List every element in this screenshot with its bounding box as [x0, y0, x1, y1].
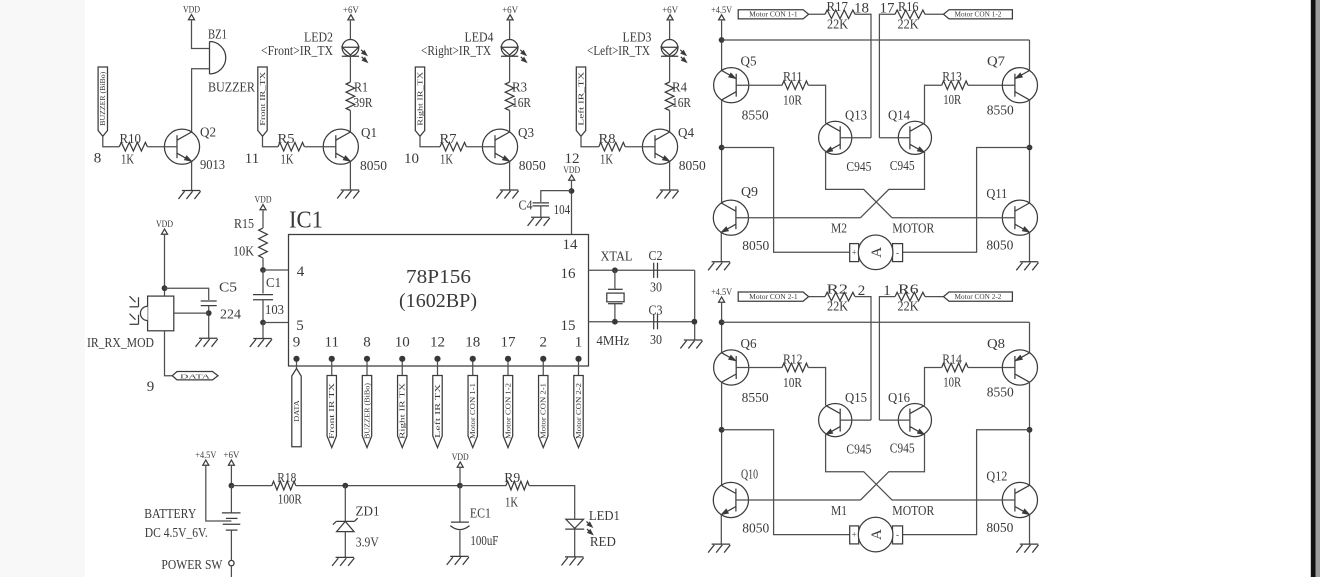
svg-text:3.9V: 3.9V	[356, 535, 379, 550]
wire (emitter cross left)	[826, 435, 892, 500]
wire	[208, 306, 210, 339]
resistor R12 10R	[782, 363, 808, 372]
resistor R1 39R	[346, 82, 355, 110]
svg-text:Motor CON 1-2: Motor CON 1-2	[505, 382, 512, 439]
svg-text:Q5: Q5	[741, 54, 757, 69]
net flag Motor CON 1-1	[738, 10, 808, 19]
wire	[809, 13, 825, 15]
transistor Q16 C945	[898, 404, 931, 437]
node	[612, 267, 618, 273]
wire	[529, 486, 575, 519]
svg-text:R7: R7	[440, 131, 457, 146]
page edge gray margin	[1316, 0, 1320, 577]
wire	[164, 235, 166, 296]
svg-text:R13: R13	[942, 69, 962, 84]
wire	[581, 136, 599, 146]
svg-text:Q16: Q16	[888, 390, 910, 405]
svg-text:IR_RX_MOD: IR_RX_MOD	[87, 335, 154, 350]
ground	[712, 261, 730, 263]
svg-text:Q1: Q1	[361, 125, 377, 140]
wire	[1029, 515, 1031, 544]
resistor R10 1K	[119, 142, 147, 151]
wire (top rail)	[722, 39, 1030, 41]
svg-text:M2: M2	[831, 221, 847, 236]
resistor R4 16R	[665, 82, 674, 110]
wire	[1029, 40, 1031, 71]
pin 8 lead	[366, 359, 368, 376]
svg-text:12: 12	[565, 151, 580, 167]
IC U1 IC1 78P156	[289, 235, 589, 367]
wire	[669, 111, 671, 133]
switch POWER SW	[229, 560, 234, 565]
resistor R6 22K	[895, 292, 925, 301]
ground	[1020, 261, 1038, 263]
svg-text:22K: 22K	[898, 299, 919, 314]
wire	[855, 297, 871, 421]
node	[1027, 427, 1033, 433]
svg-text:ZD1: ZD1	[356, 504, 380, 519]
transistor Q2	[164, 129, 199, 164]
svg-text:16: 16	[561, 266, 577, 282]
svg-text:C2: C2	[649, 248, 663, 263]
wire	[1029, 322, 1031, 353]
wire	[509, 161, 511, 190]
wire	[459, 468, 461, 486]
wire	[349, 56, 351, 82]
pin 1 lead	[578, 359, 580, 376]
svg-text:8550: 8550	[742, 108, 769, 123]
wire	[625, 146, 655, 148]
net flag Motor CON 1-2	[944, 10, 1013, 19]
svg-text:18: 18	[465, 335, 480, 351]
wire	[262, 211, 264, 229]
wire	[192, 21, 210, 49]
svg-text:POWER SW: POWER SW	[161, 557, 222, 572]
svg-text:MOTOR: MOTOR	[892, 221, 934, 236]
wire	[925, 296, 944, 298]
transistor Q7 8550	[1002, 68, 1037, 103]
svg-text:Front IR_TX: Front IR_TX	[260, 72, 267, 126]
ground	[684, 339, 702, 341]
wire	[879, 297, 895, 421]
wire (+4.5V rail)	[721, 303, 723, 353]
wire	[165, 331, 173, 376]
svg-text:30: 30	[650, 280, 662, 295]
ground	[253, 338, 271, 340]
svg-text:BUZZER (BiBo): BUZZER (BiBo)	[364, 383, 371, 439]
wire (Q11 base)	[892, 217, 1015, 219]
wire (+4.5V rail)	[721, 21, 723, 71]
wire	[263, 322, 289, 324]
wire	[262, 270, 264, 294]
wire	[736, 84, 782, 86]
svg-text:Q3: Q3	[518, 125, 534, 140]
LED LED3 <Left>IR_TX	[661, 40, 678, 57]
ground	[1020, 543, 1038, 545]
svg-text:8550: 8550	[987, 102, 1014, 117]
svg-text:1K: 1K	[281, 151, 294, 166]
ground	[336, 556, 354, 558]
svg-text:R11: R11	[783, 69, 803, 84]
wire	[879, 419, 910, 421]
net flag Front IR TX	[327, 376, 336, 448]
node	[719, 145, 725, 151]
node (pin4)	[260, 267, 266, 273]
wire	[509, 56, 511, 82]
transistor Q13 C945	[819, 121, 852, 154]
net flag Motor CON 2-1	[738, 292, 808, 301]
resistor R9 1K	[506, 481, 529, 490]
svg-text:Q9: Q9	[741, 184, 758, 199]
wire	[509, 111, 511, 133]
resistor R18 100R	[272, 481, 296, 490]
wire	[669, 56, 671, 82]
svg-text:8: 8	[94, 151, 102, 167]
svg-text:8050: 8050	[742, 238, 769, 253]
net flag Motor CON 2-2	[944, 292, 1013, 301]
svg-text:IC1: IC1	[289, 208, 323, 234]
pin 2 lead	[542, 359, 544, 376]
zener diode ZD1 3.9V	[344, 486, 346, 522]
net flag BUZZER (BiBo)	[98, 67, 107, 136]
svg-text:Q2: Q2	[200, 125, 216, 140]
svg-text:DATA: DATA	[294, 400, 301, 422]
svg-text:1K: 1K	[505, 495, 518, 510]
svg-text:8050: 8050	[360, 158, 387, 173]
resistor R17 22K	[825, 10, 855, 19]
svg-text:R15: R15	[234, 216, 254, 231]
svg-text:Left IR TX: Left IR TX	[435, 384, 442, 438]
svg-text:103: 103	[265, 302, 284, 317]
wire (Q9 base)	[736, 217, 861, 219]
ground	[531, 216, 549, 218]
transistor Q10 8050	[713, 482, 748, 517]
svg-text:78P156: 78P156	[406, 267, 471, 288]
wire	[147, 146, 177, 148]
ground	[565, 556, 583, 558]
transistor Q12 8050	[1002, 482, 1037, 517]
wire	[669, 21, 671, 40]
wire	[694, 270, 696, 340]
svg-text:1K: 1K	[600, 151, 613, 166]
svg-text:10R: 10R	[943, 374, 961, 389]
svg-text:+: +	[852, 247, 857, 257]
svg-text:+: +	[852, 530, 857, 540]
wire	[103, 136, 120, 146]
svg-text:R4: R4	[672, 80, 687, 95]
wire	[720, 515, 722, 544]
net flag Right IR TX	[398, 376, 407, 448]
svg-text:C945: C945	[890, 441, 915, 456]
wire	[879, 14, 895, 138]
svg-text:-: -	[896, 247, 899, 257]
node	[719, 427, 725, 433]
wire	[736, 367, 782, 369]
wire	[296, 485, 460, 487]
wire	[1029, 100, 1031, 203]
wire (pin16)	[589, 269, 695, 271]
resistor R5 1K	[278, 142, 304, 151]
resistor R8 1K	[599, 142, 625, 151]
wire	[925, 368, 942, 406]
svg-text:Motor CON 1-2: Motor CON 1-2	[955, 12, 1003, 19]
wire	[349, 21, 351, 40]
svg-text:9: 9	[147, 379, 155, 395]
svg-text:LED1: LED1	[589, 508, 620, 523]
svg-text:22K: 22K	[827, 299, 848, 314]
svg-text:104: 104	[554, 202, 571, 217]
ground	[199, 337, 217, 339]
svg-text:(1602BP): (1602BP)	[399, 291, 477, 312]
node (pin5)	[260, 320, 266, 326]
resistor R15 10K	[259, 228, 268, 258]
svg-text:C945: C945	[890, 158, 915, 173]
svg-text:R6: R6	[898, 281, 919, 296]
transistor Q11 8050	[1002, 200, 1037, 235]
svg-text:-: -	[896, 530, 899, 540]
svg-text:100uF: 100uF	[470, 533, 498, 548]
svg-text:R9: R9	[504, 470, 520, 485]
LED LED1 RED	[566, 519, 584, 528]
LED LED4 <Right>IR_TX	[501, 40, 518, 57]
capacitor C4 104	[533, 202, 549, 204]
wire	[808, 368, 825, 406]
svg-text:C5: C5	[219, 280, 237, 295]
svg-text:14: 14	[563, 237, 579, 253]
wire	[420, 136, 440, 146]
wire (power rail)	[231, 485, 271, 487]
svg-text:R2: R2	[827, 281, 849, 296]
resistor R3 16R	[505, 82, 514, 110]
transistor Q8 8550	[1002, 350, 1037, 385]
net flag DATA	[292, 369, 301, 447]
svg-text:<Front>IR_TX: <Front>IR_TX	[261, 43, 333, 58]
svg-text:XTAL: XTAL	[601, 249, 633, 264]
capacitor EC1 100uF	[459, 486, 461, 522]
wire	[968, 367, 1015, 369]
transistor Q1	[323, 129, 358, 164]
pin 10 lead	[401, 359, 403, 376]
svg-text:C3: C3	[649, 303, 663, 318]
svg-text:9013: 9013	[200, 157, 225, 172]
svg-text:Q14: Q14	[888, 108, 910, 123]
svg-text:16R: 16R	[512, 95, 531, 110]
svg-text:DATA: DATA	[180, 373, 211, 380]
wire (motor stub right)	[903, 148, 1030, 253]
svg-text:R3: R3	[512, 80, 527, 95]
node	[719, 319, 725, 325]
wire	[230, 466, 232, 486]
motor M1	[850, 526, 859, 544]
svg-text:11: 11	[325, 335, 339, 351]
svg-text:Motor CON 1-1: Motor CON 1-1	[749, 12, 797, 19]
wire	[669, 161, 671, 190]
transistor Q15 C945	[819, 404, 852, 437]
wire (emitter cross right)	[861, 435, 925, 500]
wire	[721, 382, 723, 485]
wire (pin15)	[589, 321, 695, 323]
svg-text:Q13: Q13	[845, 108, 867, 123]
wire	[206, 466, 232, 521]
wire	[460, 485, 506, 487]
wire	[349, 111, 351, 133]
svg-text:C4: C4	[519, 198, 533, 213]
svg-text:Q11: Q11	[986, 186, 1007, 201]
wire	[191, 161, 193, 190]
net flag Motor CON 1-2	[503, 376, 512, 448]
svg-text:11: 11	[245, 151, 259, 167]
svg-text:R14: R14	[942, 351, 962, 366]
wire	[541, 191, 572, 202]
wire	[968, 84, 1015, 86]
wire	[840, 419, 871, 421]
svg-text:Q8: Q8	[987, 336, 1005, 351]
wire	[925, 85, 942, 123]
svg-text:Q7: Q7	[987, 54, 1005, 69]
node	[1027, 145, 1033, 151]
wire	[808, 85, 825, 123]
svg-text:R18: R18	[277, 470, 296, 485]
svg-text:8550: 8550	[742, 390, 769, 405]
motor M2	[850, 244, 859, 262]
svg-text:C1: C1	[266, 275, 281, 290]
battery BT1 DC 4.5V_6V	[230, 486, 232, 513]
wire	[192, 69, 210, 132]
node	[692, 319, 698, 325]
svg-text:MOTOR: MOTOR	[892, 503, 934, 518]
svg-text:8050: 8050	[742, 520, 769, 535]
svg-text:R1: R1	[354, 80, 368, 95]
transistor Q6 8550	[714, 350, 749, 385]
svg-text:10: 10	[395, 335, 410, 351]
net flag Left IR_TX	[576, 67, 585, 136]
svg-text:10: 10	[404, 151, 419, 167]
svg-text:Right IR_TX: Right IR_TX	[417, 72, 424, 126]
capacitor C3 30	[653, 314, 655, 329]
wire	[509, 21, 511, 40]
svg-text:Q10: Q10	[741, 466, 758, 481]
buzzer BZ1	[210, 42, 226, 75]
IR receiver IR_RX_MOD	[148, 296, 174, 331]
pin 17 lead	[507, 359, 509, 376]
svg-text:4MHz: 4MHz	[596, 333, 629, 348]
svg-text:BATTERY: BATTERY	[144, 506, 196, 521]
svg-text:1K: 1K	[121, 152, 134, 167]
resistor R14 10R	[942, 363, 968, 372]
ground	[660, 189, 678, 191]
svg-text:R17: R17	[827, 0, 849, 14]
svg-text:17: 17	[501, 335, 517, 351]
svg-text:100R: 100R	[278, 492, 302, 507]
node	[229, 483, 235, 489]
svg-text:M1: M1	[831, 503, 847, 518]
net flag Motor CON 1-1	[468, 376, 477, 448]
svg-text:R10: R10	[120, 131, 142, 146]
wire	[540, 206, 542, 217]
page edge black bar	[1311, 0, 1316, 577]
transistor Q3	[482, 129, 517, 164]
pin 18 lead	[472, 359, 474, 376]
wire	[809, 296, 825, 298]
wire	[720, 232, 722, 261]
svg-text:8050: 8050	[986, 238, 1013, 253]
svg-text:R8: R8	[599, 131, 616, 146]
svg-text:5: 5	[296, 318, 304, 334]
wire	[263, 269, 289, 271]
svg-text:DC 4.5V_6V.: DC 4.5V_6V.	[145, 525, 208, 540]
wire	[571, 181, 573, 235]
svg-text:2: 2	[540, 335, 548, 351]
wire (Q11 base)	[892, 499, 1015, 501]
svg-text:Motor CON 2-1: Motor CON 2-1	[749, 294, 797, 301]
wire (motor stub left)	[722, 148, 850, 253]
transistor Q14 C945	[898, 121, 931, 154]
node (C5)	[206, 310, 212, 316]
svg-text:8550: 8550	[987, 385, 1014, 400]
wire (top rail)	[722, 321, 1030, 323]
svg-text:Motor CON 2-1: Motor CON 2-1	[541, 383, 548, 439]
svg-text:4: 4	[297, 264, 305, 280]
ground	[500, 189, 518, 191]
wire	[879, 137, 910, 139]
pin 12 lead	[437, 359, 439, 376]
resistor R13 10R	[942, 81, 968, 90]
ground	[341, 189, 359, 191]
wire	[174, 312, 209, 314]
wire	[1029, 232, 1031, 261]
crystal XTAL 4MHz	[614, 270, 616, 289]
wire (emitter cross left)	[826, 153, 892, 218]
node (VDD/C4)	[569, 188, 575, 194]
wire	[263, 136, 279, 146]
svg-text:10R: 10R	[783, 375, 802, 390]
svg-text:1K: 1K	[440, 151, 453, 166]
transistor Q9 8050	[713, 200, 748, 235]
pin 11 lead	[331, 359, 333, 376]
svg-text:Q4: Q4	[678, 125, 694, 140]
svg-text:18: 18	[854, 1, 869, 17]
wire	[855, 14, 871, 138]
svg-text:9: 9	[293, 335, 301, 351]
transistor Q5 8550	[714, 68, 749, 103]
svg-text:8: 8	[363, 335, 371, 351]
capacitor C1 103	[253, 294, 273, 296]
svg-text:Right IR TX: Right IR TX	[400, 383, 407, 439]
svg-text:RED: RED	[590, 534, 616, 549]
resistor R11 10R	[782, 81, 808, 90]
resistor R2 22K	[825, 292, 855, 301]
svg-text:16R: 16R	[672, 95, 691, 110]
svg-text:2: 2	[858, 283, 866, 299]
resistor R7 1K	[440, 142, 466, 151]
node	[719, 37, 725, 43]
pin 9 lead	[296, 359, 298, 370]
wire	[1029, 382, 1031, 485]
wire	[262, 300, 264, 323]
node (EC1)	[457, 483, 463, 489]
svg-text:22K: 22K	[827, 16, 848, 31]
svg-text:BUZZER: BUZZER	[208, 80, 255, 95]
svg-text:12: 12	[430, 335, 445, 351]
svg-text:39R: 39R	[354, 95, 373, 110]
svg-text:BUZZER (BiBo): BUZZER (BiBo)	[100, 72, 107, 126]
svg-text:<Right>IR_TX: <Right>IR_TX	[421, 43, 491, 58]
net flag Front IR_TX	[258, 67, 267, 136]
svg-text:<Left>IR_TX: <Left>IR_TX	[587, 43, 650, 58]
svg-text:A: A	[869, 247, 885, 258]
wire	[840, 137, 871, 139]
svg-text:30: 30	[650, 332, 662, 347]
